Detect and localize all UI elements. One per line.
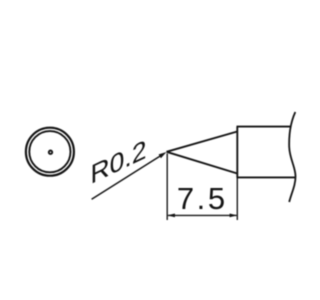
tip front view: inner circle	[29, 131, 70, 172]
cone upper profile line	[167, 132, 238, 152]
cone lower profile line	[167, 152, 238, 174]
break line	[289, 112, 295, 202]
tip front view: outer circle	[26, 128, 74, 176]
tip front view: center point	[49, 151, 52, 154]
leader line R0.2	[92, 154, 163, 199]
dimension arrow left	[167, 214, 175, 218]
shank top edge	[237, 126, 291, 128]
extension line at tip	[166, 154, 168, 221]
leader arrow	[159, 152, 167, 158]
dimension line 7.5	[168, 214, 237, 216]
shank bottom edge	[237, 176, 296, 178]
svg-text:7.5: 7.5	[177, 181, 228, 216]
dimension arrow right	[230, 214, 238, 218]
extension line at shank	[236, 177, 238, 220]
shank left edge	[236, 127, 238, 178]
